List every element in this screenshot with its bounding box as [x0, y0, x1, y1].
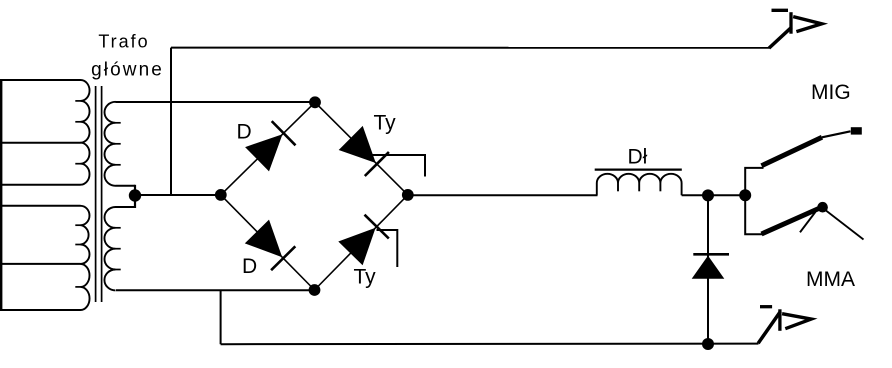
- transformer T1 primary winding lower section (3 turns): [81, 206, 90, 264]
- wire bridge arm lower-right: [315, 195, 408, 290]
- wire stub to MIG contact: [745, 168, 763, 195]
- thyristor Ty1 (upper-right arm): [339, 126, 376, 163]
- wire secondary center-tap lower stub: [116, 206, 136, 208]
- MMA contact barb: [800, 212, 816, 233]
- svg-text:D: D: [237, 121, 252, 144]
- thyristor Ty2 (lower-right arm): [338, 228, 375, 266]
- wire primary tap 6: [0, 309, 81, 311]
- wire secondary center-tap bar: [134, 185, 136, 208]
- svg-text:D: D: [242, 255, 257, 278]
- wire secondary bottom tap to bridge: [116, 289, 315, 291]
- diode D1 (upper-left arm): [245, 134, 282, 171]
- transformer T1 secondary winding lower half (4 turns): [104, 207, 115, 290]
- wire bridge output to inductor: [408, 194, 598, 196]
- thyristor Ty2 gate: [377, 230, 398, 267]
- diode D2 (lower-left arm): [245, 220, 282, 258]
- svg-text:MMA: MMA: [806, 268, 855, 291]
- node output junction: [739, 189, 751, 201]
- wire center tap to bridge left corner: [135, 194, 221, 196]
- svg-text:Ty: Ty: [374, 112, 397, 135]
- wire riser to top rail: [170, 48, 172, 195]
- node bridge bottom corner: [309, 284, 321, 296]
- inductor Dł core bar: [595, 169, 682, 171]
- wire bridge arm upper-right: [315, 102, 408, 195]
- svg-text:główne: główne: [91, 60, 164, 81]
- node freewheel diode junction: [702, 189, 714, 201]
- node center tap junction: [129, 189, 141, 201]
- MIG contact blade: [762, 137, 823, 166]
- transformer T1 primary winding upper section (3 turns): [81, 80, 90, 143]
- wire bottom rail: [221, 343, 759, 346]
- svg-text:Ty: Ty: [354, 266, 377, 289]
- wire primary tap 2: [0, 142, 81, 144]
- MIG output torch symbol: [772, 9, 789, 12]
- inductor Dł winding: [597, 174, 682, 196]
- MMA contact blade: [762, 208, 822, 235]
- wire primary tap 1: [0, 79, 81, 81]
- node bridge left corner: [215, 189, 227, 201]
- node freewheel diode to bottom rail: [702, 338, 714, 350]
- transformer T1 secondary winding upper half (4 turns): [105, 102, 116, 186]
- svg-text:MIG: MIG: [811, 81, 851, 104]
- thyristor Ty1 gate: [371, 155, 425, 177]
- svg-text:Dł: Dł: [628, 146, 648, 169]
- transformer T1 primary winding lower section (2 turns): [81, 264, 90, 310]
- wire top rail to MIG torch: [171, 47, 770, 49]
- wire drop to bottom rail: [220, 290, 222, 344]
- wire bridge arm lower-left: [221, 195, 315, 290]
- wire inductor to output node: [682, 194, 746, 196]
- node bridge top corner: [309, 96, 321, 108]
- wire primary tap 4: [0, 205, 81, 207]
- freewheeling diode D3: [692, 256, 725, 279]
- wire secondary top tap to bridge: [116, 101, 316, 103]
- wire secondary center-tap upper stub: [116, 185, 136, 187]
- transformer T1 core: [95, 86, 97, 302]
- wire bridge arm upper-left: [221, 102, 315, 195]
- MMA contact actuator line: [824, 209, 864, 240]
- wire freewheel diode branch: [707, 195, 709, 344]
- node bridge right corner: [402, 189, 414, 201]
- svg-text:Trafo: Trafo: [98, 32, 149, 52]
- wire primary tap bus: [0, 79, 2, 311]
- wire stub to MMA contact: [745, 195, 763, 234]
- transformer T1 primary winding upper section (2 turns): [81, 143, 90, 185]
- MMA output torch symbol: [760, 305, 772, 308]
- wire primary tap 3: [0, 184, 81, 186]
- wire primary tap 5: [0, 263, 81, 265]
